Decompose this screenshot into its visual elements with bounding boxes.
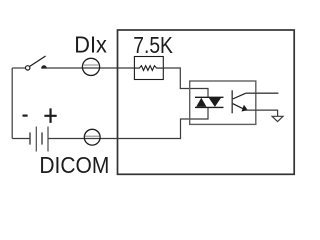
ground bbox=[272, 116, 283, 121]
wire battery negative to left vertical bbox=[12, 138, 30, 140]
label minus bbox=[23, 114, 28, 116]
terminal DICOM (screw terminal) bbox=[84, 129, 100, 145]
battery B1 bbox=[30, 127, 48, 152]
wire resistor output to LED top rail bbox=[163, 68, 208, 97]
wire switch contact to resistor (through DIx terminal) bbox=[44, 67, 134, 69]
LED pair top rail bbox=[195, 96, 224, 98]
svg-text:7.5K: 7.5K bbox=[133, 32, 173, 58]
wire battery positive to LED bottom rail (through DICOM terminal) bbox=[48, 107, 208, 138]
wire left vertical (DIx loop return) bbox=[11, 68, 13, 139]
phototransistor Q1 bbox=[232, 90, 248, 113]
label plus bbox=[44, 108, 56, 123]
switch S1 (open contact) bbox=[26, 56, 47, 70]
svg-text:DICOM: DICOM bbox=[39, 152, 109, 178]
optocoupler U1 body bbox=[190, 81, 256, 124]
diode D1 (up triangle) bbox=[196, 98, 206, 107]
LED pair bottom rail bbox=[195, 106, 224, 108]
svg-text:DIx: DIx bbox=[74, 32, 107, 58]
wire emitter output to ground bbox=[246, 110, 278, 116]
resistor R1 bbox=[134, 57, 163, 80]
enclosure drive unit outline bbox=[118, 30, 295, 174]
terminal DIx (screw terminal) bbox=[82, 58, 99, 75]
wire collector output bbox=[246, 92, 279, 94]
wire top feed to switch bbox=[12, 67, 25, 69]
diode D2 (down triangle) bbox=[209, 98, 221, 107]
